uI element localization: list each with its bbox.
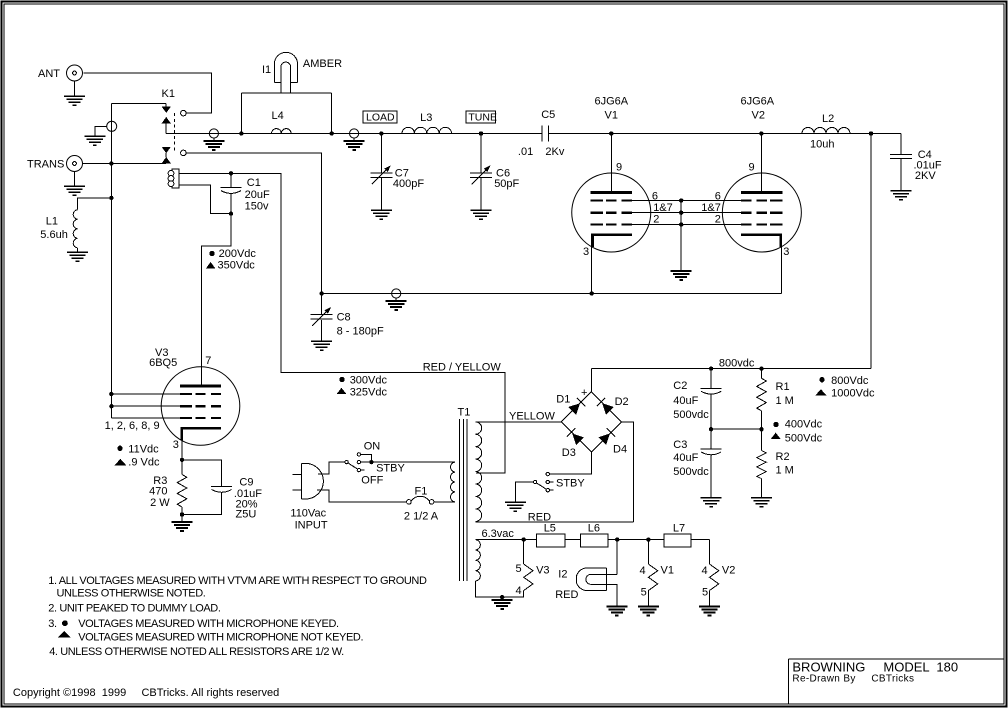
- svg-text:5: 5: [702, 586, 708, 598]
- svg-text:L5: L5: [544, 523, 556, 535]
- svg-text:.01 2Kv: .01 2Kv: [518, 146, 565, 158]
- svg-text:TRANS: TRANS: [27, 158, 64, 170]
- svg-text:D3: D3: [562, 447, 576, 459]
- svg-text:4: 4: [640, 565, 646, 577]
- svg-text:7: 7: [205, 355, 211, 367]
- svg-text:325Vdc: 325Vdc: [350, 387, 388, 399]
- svg-text:LOAD: LOAD: [366, 112, 395, 124]
- svg-text:6: 6: [715, 190, 721, 202]
- svg-text:2 W: 2 W: [150, 497, 170, 509]
- svg-text:C5: C5: [541, 109, 555, 121]
- svg-text:500Vdc: 500Vdc: [785, 433, 823, 445]
- svg-text:TUNE: TUNE: [468, 112, 497, 124]
- svg-text:I2: I2: [558, 568, 567, 580]
- svg-text:400pF: 400pF: [393, 178, 424, 190]
- svg-text:V3: V3: [536, 564, 549, 576]
- svg-text:150v: 150v: [245, 201, 269, 213]
- svg-text:L3: L3: [420, 112, 432, 124]
- svg-text:I1: I1: [262, 64, 271, 76]
- svg-text:3.: 3.: [48, 618, 57, 630]
- svg-text:3: 3: [783, 246, 789, 258]
- svg-text:UNLESS OTHERWISE NOTED.: UNLESS OTHERWISE NOTED.: [57, 588, 206, 600]
- svg-text:RED: RED: [555, 589, 578, 601]
- svg-text:6JG6A: 6JG6A: [741, 95, 775, 107]
- svg-text:T1: T1: [458, 407, 471, 419]
- svg-text:110Vac: 110Vac: [290, 507, 326, 519]
- svg-text:1 M: 1 M: [776, 465, 794, 477]
- svg-text:+: +: [581, 387, 587, 399]
- svg-text:5.6uh: 5.6uh: [40, 229, 68, 241]
- svg-text:L6: L6: [588, 523, 600, 535]
- svg-text:INPUT: INPUT: [295, 520, 328, 532]
- svg-text:BROWNING MODEL 180: BROWNING MODEL 180: [792, 660, 958, 675]
- svg-text:6JG6A: 6JG6A: [595, 95, 629, 107]
- svg-text:50pF: 50pF: [494, 178, 519, 190]
- svg-text:10uh: 10uh: [810, 139, 834, 151]
- svg-text:V1: V1: [605, 109, 618, 121]
- svg-text:500vdc: 500vdc: [673, 409, 709, 421]
- svg-text:YELLOW: YELLOW: [509, 411, 555, 423]
- svg-text:F1: F1: [415, 486, 428, 498]
- svg-text:D4: D4: [613, 444, 627, 456]
- svg-text:800vdc: 800vdc: [719, 357, 755, 369]
- svg-text:2: 2: [715, 214, 721, 226]
- svg-text:C1: C1: [247, 177, 261, 189]
- svg-text:C2: C2: [673, 380, 687, 392]
- svg-text:STBY: STBY: [556, 478, 585, 490]
- svg-text:6: 6: [652, 190, 658, 202]
- svg-text:ANT: ANT: [38, 68, 60, 80]
- svg-text:800Vdc: 800Vdc: [831, 375, 869, 387]
- svg-text:9: 9: [616, 162, 622, 174]
- svg-text:L2: L2: [822, 113, 834, 125]
- svg-text:40uF: 40uF: [673, 395, 698, 407]
- svg-text:200Vdc: 200Vdc: [219, 248, 257, 260]
- svg-text:3: 3: [583, 246, 589, 258]
- svg-text:L1: L1: [46, 215, 58, 227]
- svg-text:V1: V1: [661, 564, 674, 576]
- svg-text:ON: ON: [364, 441, 381, 453]
- svg-text:R2: R2: [776, 451, 790, 463]
- svg-text:OFF: OFF: [361, 475, 383, 487]
- svg-text:RED: RED: [528, 512, 551, 524]
- svg-text:D1: D1: [556, 393, 570, 405]
- svg-text:Re-Drawn By CBTricks: Re-Drawn By CBTricks: [792, 673, 914, 684]
- svg-text:2. UNIT PEAKED TO DUMMY LOAD.: 2. UNIT PEAKED TO DUMMY LOAD.: [48, 603, 221, 615]
- svg-text:2KV: 2KV: [915, 170, 936, 182]
- svg-text:5: 5: [641, 586, 647, 598]
- svg-text:C3: C3: [673, 439, 687, 451]
- svg-text:STBY: STBY: [376, 462, 405, 474]
- svg-text:1, 2, 6, 8, 9: 1, 2, 6, 8, 9: [105, 420, 160, 432]
- svg-text:R1: R1: [776, 381, 790, 393]
- svg-text:RED / YELLOW: RED / YELLOW: [423, 362, 502, 374]
- svg-text:300Vdc: 300Vdc: [350, 374, 388, 386]
- svg-text:400Vdc: 400Vdc: [785, 419, 823, 431]
- svg-text:V2: V2: [752, 109, 765, 121]
- svg-text:3: 3: [173, 439, 179, 451]
- svg-text:L4: L4: [272, 110, 284, 122]
- svg-text:9: 9: [749, 162, 755, 174]
- svg-text:L7: L7: [673, 523, 685, 535]
- svg-text:40uF: 40uF: [673, 452, 698, 464]
- svg-text:4: 4: [702, 565, 708, 577]
- svg-text:20uF: 20uF: [245, 189, 270, 201]
- svg-text:11Vdc: 11Vdc: [128, 443, 159, 455]
- svg-text:D2: D2: [615, 396, 629, 408]
- svg-text:V2: V2: [722, 564, 735, 576]
- svg-text:1 M: 1 M: [776, 395, 794, 407]
- svg-text:1. ALL VOLTAGES MEASURED WITH: 1. ALL VOLTAGES MEASURED WITH VTVM ARE W…: [48, 575, 427, 587]
- svg-text:Copyright ©1998 1999 CBTr: Copyright ©1998 1999 CBTricks. All right…: [13, 687, 279, 699]
- svg-text:8 - 180pF: 8 - 180pF: [337, 325, 384, 337]
- svg-text:6BQ5: 6BQ5: [149, 357, 177, 369]
- svg-text:.9 Vdc: .9 Vdc: [128, 456, 160, 468]
- svg-text:AMBER: AMBER: [303, 58, 342, 70]
- svg-text:Z5U: Z5U: [236, 508, 257, 520]
- svg-text:C9: C9: [239, 477, 253, 489]
- svg-text:1&7: 1&7: [653, 202, 673, 214]
- svg-text:2: 2: [653, 214, 659, 226]
- svg-text:1&7: 1&7: [701, 202, 721, 214]
- svg-text:350Vdc: 350Vdc: [218, 259, 256, 271]
- svg-text:C8: C8: [337, 312, 351, 324]
- svg-text:2 1/2 A: 2 1/2 A: [404, 511, 439, 523]
- svg-text:4. UNLESS OTHERWISE NOTED ALL: 4. UNLESS OTHERWISE NOTED ALL RESISTORS …: [49, 646, 344, 658]
- svg-text:VOLTAGES MEASURED WITH MICROPH: VOLTAGES MEASURED WITH MICROPHONE NOT KE…: [78, 631, 363, 643]
- svg-text:VOLTAGES MEASURED WITH MICROPH: VOLTAGES MEASURED WITH MICROPHONE KEYED.: [78, 618, 339, 630]
- svg-text:500vdc: 500vdc: [673, 466, 709, 478]
- svg-text:6.3vac: 6.3vac: [482, 528, 515, 540]
- svg-text:4: 4: [516, 585, 522, 597]
- svg-text:5: 5: [516, 563, 522, 575]
- svg-text:K1: K1: [162, 88, 175, 100]
- svg-text:1000Vdc: 1000Vdc: [831, 387, 875, 399]
